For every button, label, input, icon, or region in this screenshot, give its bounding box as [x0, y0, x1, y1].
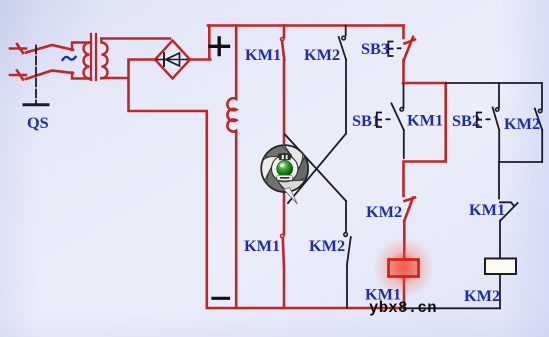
- svg-text:SB1: SB1: [352, 111, 380, 130]
- svg-text:KM1: KM1: [407, 111, 443, 130]
- svg-text:QS: QS: [27, 113, 49, 132]
- svg-text:KM2: KM2: [464, 286, 500, 305]
- svg-text:KM1: KM1: [469, 200, 505, 219]
- svg-text:ybx8.cn: ybx8.cn: [369, 299, 437, 317]
- svg-text:KM2: KM2: [304, 45, 340, 64]
- svg-text:SB3: SB3: [361, 39, 389, 58]
- svg-text:KM2: KM2: [366, 202, 402, 221]
- svg-text:KM2: KM2: [504, 114, 540, 133]
- svg-text:SB2: SB2: [452, 111, 480, 130]
- svg-text:KM2: KM2: [309, 236, 345, 255]
- svg-text:KM1: KM1: [244, 236, 280, 255]
- svg-text:KM1: KM1: [245, 45, 281, 64]
